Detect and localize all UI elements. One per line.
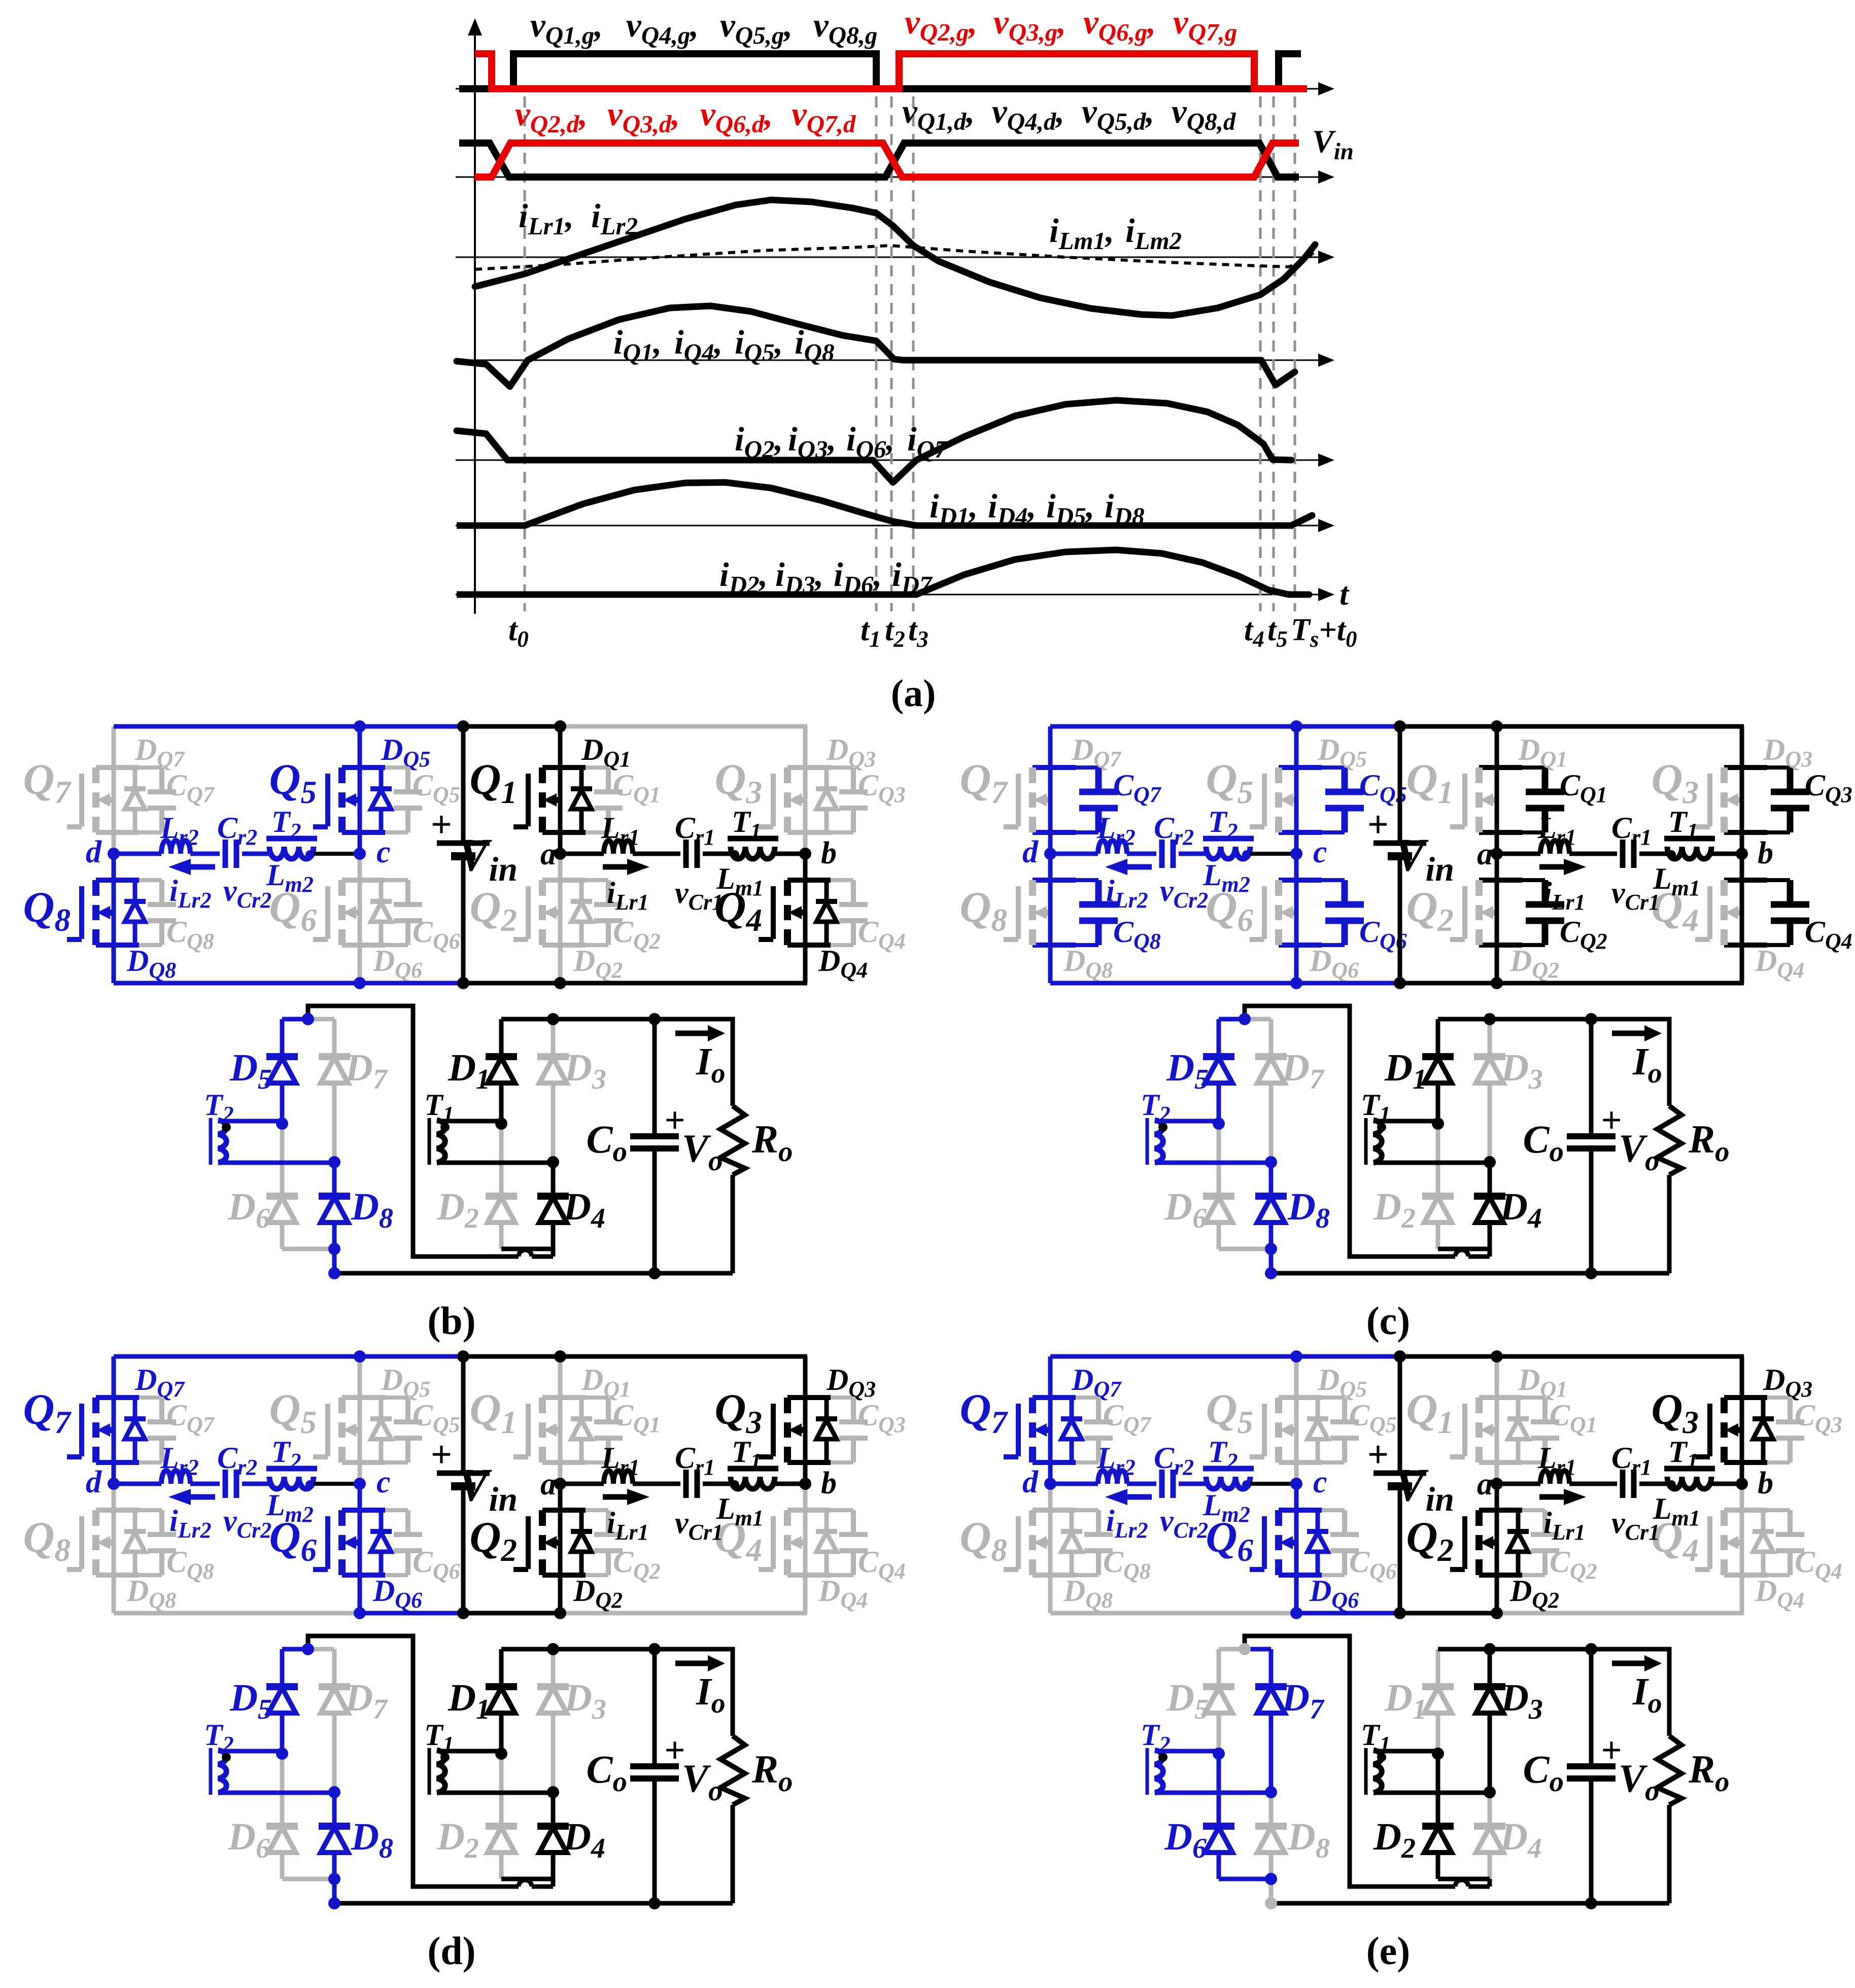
svg-text:(e): (e) xyxy=(1366,1929,1411,1973)
svg-text:a: a xyxy=(1477,1467,1493,1502)
svg-text:(b): (b) xyxy=(427,1299,475,1343)
svg-text:d: d xyxy=(1022,835,1039,869)
svg-text:+: + xyxy=(1367,1434,1389,1476)
svg-text:a: a xyxy=(540,1467,556,1502)
svg-text:c: c xyxy=(376,835,391,869)
svg-text:+: + xyxy=(431,804,452,846)
svg-text:c: c xyxy=(376,1465,391,1499)
svg-text:b: b xyxy=(821,1466,837,1501)
svg-text:(d): (d) xyxy=(427,1929,475,1973)
svg-text:d: d xyxy=(86,1465,102,1499)
svg-text:(a): (a) xyxy=(891,672,936,715)
svg-text:+: + xyxy=(431,1434,452,1476)
svg-text:c: c xyxy=(1313,1465,1327,1499)
svg-text:a: a xyxy=(540,837,556,871)
svg-text:+: + xyxy=(1367,804,1389,846)
svg-text:b: b xyxy=(1758,836,1773,870)
svg-text:d: d xyxy=(1022,1465,1039,1499)
svg-text:t: t xyxy=(1339,576,1350,612)
svg-text:a: a xyxy=(1477,837,1493,871)
svg-text:b: b xyxy=(1758,1466,1773,1501)
svg-text:b: b xyxy=(821,836,837,870)
svg-text:d: d xyxy=(86,835,102,869)
svg-text:c: c xyxy=(1313,835,1327,869)
svg-text:(c): (c) xyxy=(1366,1299,1411,1343)
